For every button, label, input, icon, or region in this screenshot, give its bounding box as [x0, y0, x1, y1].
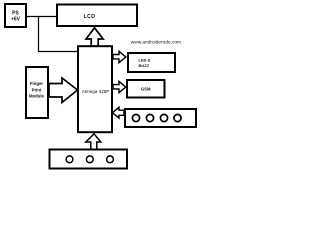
bottom button block with 3 buttons — [50, 150, 128, 169]
block arrow finger print to Atmega — [49, 78, 78, 103]
keypad block with 4 buttons — [125, 109, 196, 127]
microcontroller Atmega-328P — [78, 46, 112, 132]
button B — [86, 156, 93, 163]
wire PS to LCD — [27, 16, 57, 18]
button 3 — [160, 114, 167, 121]
svg-text:LED &: LED & — [139, 58, 151, 63]
button C — [107, 156, 114, 163]
button 1 — [132, 114, 139, 121]
power supply block PS +6V — [5, 4, 26, 27]
svg-text:GSM: GSM — [141, 87, 151, 92]
svg-text:Module: Module — [29, 94, 45, 99]
svg-text:BUZZ: BUZZ — [139, 63, 150, 68]
block arrow Atmega to LCD — [86, 28, 103, 46]
wire PS branch to Atmega — [39, 17, 79, 52]
svg-text:LCD: LCD — [84, 14, 96, 20]
block arrow Atmega to LED & BUZZ — [113, 51, 126, 62]
svg-text:www.androiderode.com: www.androiderode.com — [131, 39, 181, 45]
svg-text:Finger: Finger — [30, 81, 43, 86]
block arrow bottom buttons to Atmega — [86, 134, 101, 150]
svg-text:+6V: +6V — [11, 16, 21, 22]
block arrow keypad to Atmega (left pointing) — [113, 107, 125, 118]
svg-text:Atmega-328P: Atmega-328P — [82, 89, 110, 94]
LED & BUZZ block — [128, 53, 175, 72]
button 2 — [146, 114, 153, 121]
button 4 — [174, 114, 181, 121]
GSM block — [127, 80, 165, 98]
svg-text:Print: Print — [32, 87, 42, 92]
finger print module block — [26, 67, 48, 118]
block arrow Atmega to GSM — [113, 81, 126, 92]
button A — [66, 156, 73, 163]
LCD block — [57, 5, 137, 27]
